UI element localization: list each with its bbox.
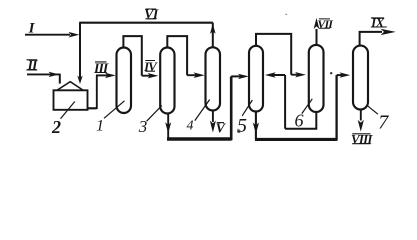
- faint dash artifact: [285, 14, 287, 15]
- stream III riser: [96, 75, 98, 109]
- arrow into column 4: [187, 74, 196, 76]
- column 3: [160, 48, 174, 114]
- arrow into column 5 right: [273, 74, 286, 76]
- leader to label 3: [147, 106, 162, 122]
- svg-text:2: 2: [51, 117, 61, 137]
- column 7: [353, 46, 368, 110]
- svg-text:7: 7: [378, 112, 389, 134]
- leader to label 7: [367, 105, 378, 114]
- svg-text:II: II: [27, 59, 38, 74]
- column 6: [309, 45, 324, 112]
- svg-text:VI: VI: [144, 8, 159, 23]
- arrow into column 7 left: [337, 74, 343, 76]
- svg-text:1: 1: [96, 117, 104, 134]
- leader to label 6: [302, 99, 313, 114]
- stream VII riser with arrow: [316, 29, 318, 46]
- column 5 overhead pipe: [256, 34, 291, 75]
- stream III arrow into column 1: [96, 74, 108, 76]
- column 1: [117, 48, 132, 114]
- svg-text:V: V: [216, 122, 227, 137]
- column 6 bottoms return line: [285, 75, 317, 129]
- svg-text:4: 4: [187, 118, 194, 133]
- svg-text:6: 6: [295, 111, 304, 131]
- column 3 bottoms line to column 5: [167, 137, 231, 140]
- stream I arrow: [25, 34, 70, 36]
- vessel 2 body: [54, 90, 88, 110]
- leader to label 2: [61, 102, 75, 119]
- arrow into column 5 left: [231, 75, 241, 77]
- stream IV arrow into column 3: [142, 75, 151, 77]
- stream IX pipe and arrow: [360, 32, 382, 46]
- small ring artifact: [238, 130, 240, 132]
- svg-text:I: I: [28, 20, 36, 36]
- svg-text:5: 5: [237, 115, 247, 137]
- stream II arrow: [27, 73, 60, 75]
- ink dot artifact: [330, 72, 332, 74]
- leader to label 4: [195, 100, 210, 121]
- column 5 bottoms downcomer with arrow: [255, 112, 257, 140]
- svg-text:3: 3: [138, 117, 148, 136]
- line VI riser from column 4: [212, 23, 214, 48]
- stream V arrow from column 4: [212, 111, 214, 122]
- column 4: [206, 47, 221, 110]
- leader to label 1: [104, 101, 125, 119]
- leader to label 5: [242, 100, 252, 116]
- stream VIII arrow from column 7: [360, 110, 362, 121]
- stream II drop into vessel 2: [59, 74, 61, 84]
- line VI horizontal: [79, 22, 213, 24]
- vessel 2 roof: [57, 82, 84, 91]
- column 5 bottoms line to column 7: [255, 138, 337, 141]
- arrow into column 6: [291, 74, 298, 76]
- svg-text:III: III: [93, 61, 109, 76]
- column 5: [249, 46, 263, 112]
- column 3 overhead pipe: [167, 36, 187, 75]
- column 1 overhead pipe: [123, 36, 141, 76]
- vessel 2 outlet stub: [87, 107, 97, 109]
- feed vertical into vessel 2: [79, 23, 81, 78]
- column 3 bottoms downcomer with arrow: [167, 113, 169, 139]
